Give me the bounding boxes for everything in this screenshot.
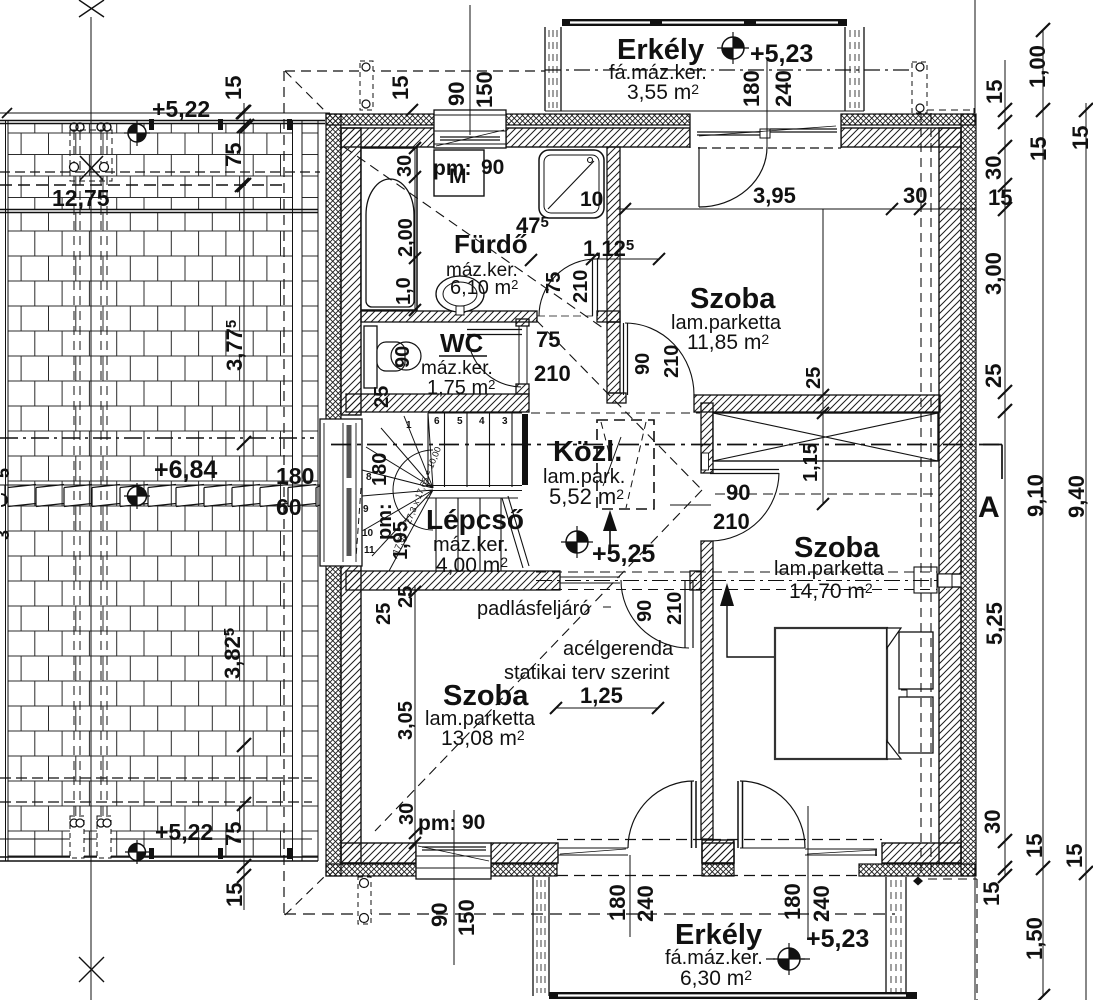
stairs window left wall (pm:180) — [320, 419, 362, 566]
benchmark symbol top — [124, 120, 150, 146]
top wall post/downpipe — [360, 61, 373, 110]
svg-text:A: A — [978, 491, 1000, 524]
roof section dash-dot line — [0, 437, 314, 439]
interior wall WC right — [516, 319, 529, 326]
svg-text:1: 1 — [406, 420, 412, 431]
svg-text:15: 15 — [982, 80, 1007, 104]
svg-text:240: 240 — [771, 70, 796, 107]
top wall inner band — [341, 128, 961, 147]
horizontal line y113 with +5,22 top — [0, 112, 330, 114]
stairs lower flight risers — [426, 498, 518, 571]
svg-text:75: 75 — [221, 143, 246, 167]
post top right corner — [912, 62, 927, 113]
bottom overhang dashed y914 — [284, 913, 895, 915]
svg-text:13,08 m2: 13,08 m2 — [441, 727, 525, 750]
svg-text:180: 180 — [369, 453, 391, 486]
svg-text:3,05: 3,05 — [395, 701, 417, 740]
svg-text:150: 150 — [472, 71, 497, 108]
svg-text:9: 9 — [363, 504, 369, 515]
svg-text:240: 240 — [809, 885, 834, 922]
roof eaves bottom double line — [0, 857, 318, 861]
svg-text:máz.ker.: máz.ker. — [421, 358, 493, 379]
svg-text:fá.máz.ker.: fá.máz.ker. — [665, 947, 763, 969]
svg-text:1,95: 1,95 — [390, 521, 412, 560]
svg-text:+5,23: +5,23 — [806, 925, 869, 953]
svg-text:180: 180 — [605, 884, 630, 921]
svg-text:15: 15 — [988, 185, 1012, 210]
stairs handrail edge black — [522, 414, 528, 485]
svg-text:90: 90 — [481, 156, 504, 179]
left wall inner band — [341, 128, 361, 863]
svg-text:15: 15 — [979, 882, 1004, 906]
dashed lines across bottom openings — [557, 839, 882, 841]
dashed diagonal D1 through Furdo — [344, 147, 603, 328]
Szoba1 dim line y209: 3,95 / 30 — [617, 208, 976, 210]
door A leaf+arc — [692, 781, 697, 848]
stairs break line — [502, 496, 529, 568]
up arrow attic — [727, 604, 774, 657]
downpipe bottom left — [358, 877, 371, 924]
svg-text:180: 180 — [780, 883, 805, 920]
svg-text:11: 11 — [364, 545, 375, 556]
svg-text:Fürdő: Fürdő — [454, 229, 528, 259]
balcony door A bottom (180/240) — [558, 848, 628, 855]
svg-text:90: 90 — [392, 346, 414, 368]
svg-text:210: 210 — [570, 270, 592, 303]
svg-text:90: 90 — [726, 480, 750, 505]
svg-text:15: 15 — [388, 76, 413, 100]
svg-text:15: 15 — [221, 76, 246, 100]
window W1 top (90/150) — [434, 110, 506, 148]
door Szoba14 (90/210) leaf+arc — [710, 470, 779, 474]
dashed lines lower roof — [0, 777, 312, 779]
svg-text:1,0: 1,0 — [393, 277, 415, 305]
svg-text:3,00: 3,00 — [981, 252, 1006, 295]
survey symbol Kozl +5,25 — [561, 526, 593, 558]
sink Furdo — [436, 276, 484, 312]
dashed line Szoba14 y494 — [715, 493, 938, 495]
Szoba1 dim x823: 25 / 1,15 — [822, 209, 824, 504]
axis line with X marks — [90, 17, 92, 1000]
svg-text:Közl.: Közl. — [553, 436, 622, 468]
svg-text:15: 15 — [1062, 844, 1087, 868]
svg-text:60: 60 — [276, 494, 302, 520]
svg-text:25: 25 — [981, 364, 1006, 388]
roof left edge double line — [6, 120, 9, 861]
WC toilet — [364, 326, 377, 388]
bottom door A dim 180/240 — [629, 855, 631, 937]
attic hatch dashed rect — [597, 420, 654, 509]
dashed diagonal D2 through corridor — [536, 320, 702, 490]
svg-text:padlásfeljáró: padlásfeljáró — [477, 598, 590, 620]
ridge cap band y485-506 — [5, 485, 324, 507]
dim 1,25 — [556, 707, 658, 709]
svg-text:2,00: 2,00 — [395, 218, 417, 257]
svg-text:90: 90 — [634, 600, 656, 622]
roof overhang dashed vertical x283 — [283, 71, 285, 915]
overhang dashed top left y71 — [285, 70, 545, 72]
balcony door top (180/240) — [690, 114, 841, 148]
dimension dashed line 12,75 — [0, 184, 285, 186]
svg-text:+5,23: +5,23 — [750, 40, 813, 68]
interior wall corridor top (Szoba1 bottom) — [607, 393, 626, 403]
balcony top slab — [545, 27, 561, 111]
winder radiating treads — [362, 413, 433, 571]
dashed line over roof y172 — [0, 171, 320, 173]
svg-text:240: 240 — [633, 885, 658, 922]
right dim chain C0 — [974, 0, 976, 1000]
bottom eaves posts — [70, 816, 84, 858]
door Szoba1 (90/210) leaf+arc — [624, 323, 628, 395]
svg-text:90: 90 — [444, 82, 469, 106]
stair step numbers — [362, 416, 508, 556]
svg-text:30: 30 — [396, 803, 418, 825]
beam pocket in right wall — [914, 567, 937, 593]
svg-text:25: 25 — [371, 386, 393, 408]
svg-text:14,70 m2: 14,70 m2 — [789, 580, 873, 603]
left interior dim chain x244 — [243, 103, 245, 910]
svg-text:25: 25 — [373, 603, 395, 625]
svg-text:Szoba: Szoba — [690, 283, 776, 315]
svg-text:25: 25 — [803, 367, 825, 389]
left wall outer band — [326, 114, 341, 876]
svg-text:1,25: 1,25 — [580, 683, 623, 708]
bottom wall door posts — [702, 840, 734, 863]
bottom door B dim 180/240 — [807, 806, 809, 937]
svg-text:pm:: pm: — [433, 157, 472, 180]
right dim chain C1 — [1004, 60, 1006, 876]
svg-text:3: 3 — [502, 416, 508, 427]
utility pole symbol — [70, 130, 112, 181]
bed — [775, 628, 887, 759]
interior wall stairs bottom / corridor bottom — [346, 571, 560, 590]
dashed diagonal D3 corridor to Szoba13 — [375, 490, 702, 831]
svg-text:6,10 m2: 6,10 m2 — [450, 277, 518, 299]
dim chain bathtub x415 — [414, 148, 416, 310]
right wall outer band — [961, 114, 976, 876]
interior wall Furdo/Szoba vertical — [607, 147, 620, 322]
right wall inner band — [939, 128, 961, 863]
svg-text:9,40: 9,40 — [1064, 475, 1089, 518]
balcony door B bottom — [738, 781, 743, 848]
interior wall Furdo bottom — [361, 311, 537, 322]
benchmark symbol bottom — [125, 840, 149, 864]
winder walk arc — [393, 450, 433, 530]
svg-text:+5,22: +5,22 — [155, 819, 213, 845]
door Szoba13 (90/210) leaf+arc — [685, 580, 693, 648]
door arc balcony top — [699, 147, 767, 207]
svg-text:90: 90 — [632, 353, 654, 375]
bottom wall outer band — [326, 864, 975, 876]
balcony top dim 180/240 — [766, 59, 768, 148]
svg-text:3,55 m2: 3,55 m2 — [627, 81, 699, 104]
svg-text:5,52 m2: 5,52 m2 — [549, 484, 624, 509]
roof ridge double line — [0, 210, 318, 213]
bottom wall inner band — [341, 843, 961, 863]
svg-text:Lépcső: Lépcső — [426, 504, 524, 535]
svg-text:210: 210 — [534, 361, 571, 386]
svg-text:1,00: 1,00 — [1025, 45, 1050, 88]
svg-text:15: 15 — [222, 883, 247, 907]
interior wall Szoba13/14 vertical — [701, 403, 713, 473]
dash-dot line over balcony top — [545, 69, 912, 71]
svg-text:90: 90 — [462, 811, 485, 834]
svg-text:máz.ker.: máz.ker. — [433, 534, 509, 556]
svg-text:90: 90 — [427, 903, 452, 927]
svg-text:9,10: 9,10 — [1023, 474, 1048, 517]
attic hatch up arrow — [609, 528, 611, 553]
svg-text:180: 180 — [276, 463, 314, 489]
mid-left benchmark symbol — [124, 483, 150, 509]
ticks on left chain — [237, 105, 251, 119]
svg-text:75: 75 — [221, 822, 246, 846]
W3 dim line + labels — [453, 810, 455, 965]
svg-text:5: 5 — [457, 416, 463, 427]
svg-text:180: 180 — [739, 70, 764, 107]
svg-text:30: 30 — [394, 155, 416, 177]
stairs mid stringer — [426, 486, 522, 491]
svg-text:WC: WC — [440, 328, 484, 358]
svg-text:lam.parketta: lam.parketta — [774, 558, 885, 580]
svg-text:75: 75 — [543, 272, 565, 294]
black diamond downpipe — [913, 877, 923, 886]
long dashed verticals (posts projection) — [74, 131, 107, 858]
svg-text:25: 25 — [395, 586, 417, 608]
section dash-dot line main — [331, 444, 1002, 446]
stairs upper flight risers — [428, 413, 522, 487]
svg-text:1,50: 1,50 — [1022, 917, 1047, 960]
svg-text:30: 30 — [980, 810, 1005, 834]
beam dashed lines horizontal — [536, 571, 937, 573]
shower — [539, 150, 604, 218]
Szoba13 dim x415: 25/3,05/30 — [414, 585, 416, 843]
svg-text:acélgerenda: acélgerenda — [563, 638, 674, 660]
svg-text:5,25: 5,25 — [982, 602, 1007, 645]
svg-text:6,30 m2: 6,30 m2 — [680, 967, 752, 990]
svg-text:150: 150 — [454, 899, 479, 936]
interior wall WC bottom / stairs top — [346, 394, 529, 412]
svg-text:10: 10 — [362, 528, 374, 539]
svg-text:1,15: 1,15 — [800, 443, 822, 482]
roof right edge lines — [293, 120, 319, 861]
bathtub — [361, 148, 417, 310]
svg-text:11,85 m2: 11,85 m2 — [687, 331, 769, 354]
dim 1,12.5 Szoba1 door — [592, 258, 660, 260]
right dim chain C2 — [1042, 30, 1044, 996]
svg-text:3: 3 — [0, 530, 13, 540]
svg-text:3,95: 3,95 — [753, 183, 796, 208]
ticks top-left dim — [236, 105, 250, 119]
top eaves posts — [70, 123, 111, 131]
svg-text:210: 210 — [664, 592, 686, 625]
roof tile field — [8, 124, 293, 209]
right dim chain C3 — [1085, 103, 1087, 1000]
door Furdo (75/210) leaf+arc — [593, 258, 598, 316]
svg-text:15: 15 — [1068, 126, 1093, 150]
horizontal line y839 with +5,22 — [0, 838, 312, 840]
svg-text:pm:: pm: — [418, 812, 457, 835]
svg-text:6: 6 — [434, 416, 440, 427]
svg-text:1,75 m2: 1,75 m2 — [427, 377, 495, 399]
svg-text:4: 4 — [479, 416, 485, 427]
window W3 bottom (90/150) — [416, 843, 491, 879]
svg-text:30: 30 — [903, 183, 927, 208]
svg-text:5: 5 — [0, 468, 13, 478]
balcony bottom rails — [533, 877, 549, 996]
svg-text:15: 15 — [1026, 137, 1051, 161]
svg-text:+6,84: +6,84 — [154, 456, 217, 484]
door WC (75/210) leaf+arc — [467, 330, 522, 335]
svg-text:210: 210 — [713, 509, 750, 534]
svg-text:10: 10 — [580, 188, 603, 211]
beam box with X brace — [713, 413, 938, 461]
roof eaves top double line — [0, 121, 325, 124]
horizontal line y485 — [0, 484, 362, 486]
hip dashed diagonals — [285, 71, 326, 112]
W1 dim line + labels 90/150 — [469, 5, 471, 135]
washing machine M — [434, 150, 484, 196]
svg-text:+5,25: +5,25 — [592, 540, 655, 568]
svg-text:30: 30 — [981, 156, 1006, 180]
svg-text:75: 75 — [536, 327, 560, 352]
svg-text:210: 210 — [661, 345, 683, 378]
top wall outer band — [326, 114, 975, 125]
dashed line corridor top opening — [531, 412, 700, 414]
overhang dashed right side double — [921, 113, 931, 878]
svg-text:4,00 m2: 4,00 m2 — [436, 554, 508, 577]
svg-text:statikai terv szerint: statikai terv szerint — [504, 662, 670, 684]
svg-text:+5,22: +5,22 — [152, 96, 210, 122]
svg-text:15: 15 — [1022, 834, 1047, 858]
